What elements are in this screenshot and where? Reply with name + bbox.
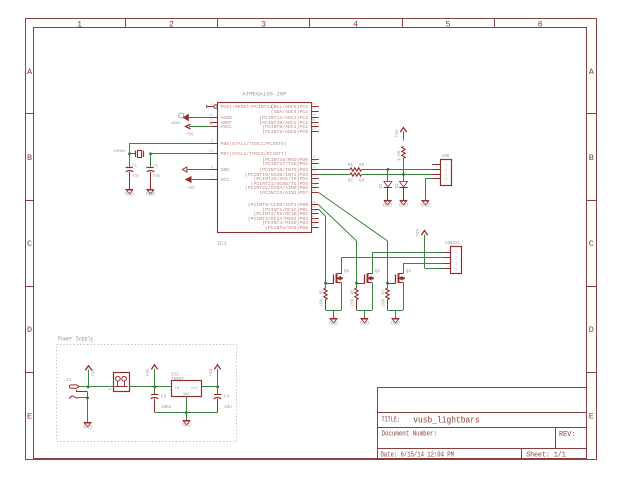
svg-text:1.5K: 1.5K [397, 150, 402, 161]
svg-text:VCC: VCC [221, 177, 230, 183]
svg-text:PC6(/RESET/PCINT14): PC6(/RESET/PCINT14) [221, 104, 276, 110]
IC1 pin 10 PB7(XTAL2/TOSC2/PCINT7) [210, 153, 218, 155]
svg-text:22p: 22p [132, 175, 140, 179]
svg-text:1: 1 [455, 252, 457, 256]
wire crystal left [129, 153, 136, 155]
frame row ticks left [25, 113, 34, 115]
svg-text:27: 27 [311, 108, 315, 112]
svg-text:(SDA/ADC4)PC4: (SDA/ADC4)PC4 [271, 109, 309, 115]
ground under Q1 [330, 318, 338, 320]
IC1 pin 24 (PCINT9/ADC1)PC1 [311, 126, 319, 128]
svg-text:6: 6 [313, 175, 315, 179]
svg-text:28: 28 [311, 103, 315, 107]
svg-text:A: A [27, 67, 33, 77]
svg-text:D1: D1 [379, 183, 384, 189]
CON pin 4 stub [443, 268, 450, 270]
IC1 pin 14 (PCINT0/CLKO/ICP1)PB0 [311, 204, 319, 206]
svg-text:R1: R1 [348, 163, 354, 168]
ground under C2 [146, 189, 154, 191]
wire PB7 to crystal [150, 153, 210, 155]
svg-text:E: E [27, 411, 32, 421]
svg-text:10k: 10k [350, 298, 355, 306]
capacitor C4 [217, 387, 219, 395]
resistor R1 [350, 168, 362, 171]
svg-text:Q3: Q3 [406, 269, 412, 274]
IC1 pin 15 (PCINT1/OC1A)PB1 [311, 209, 319, 211]
svg-text:J1: J1 [66, 377, 72, 383]
svg-text:+5V: +5V [208, 368, 214, 376]
svg-text:C: C [27, 239, 32, 249]
svg-text:10u: 10u [224, 405, 232, 410]
title block box [378, 388, 587, 459]
svg-text:4: 4 [353, 19, 358, 29]
svg-text:A: A [589, 67, 595, 77]
svg-text:14: 14 [311, 201, 315, 205]
transistor Q3 [395, 275, 397, 284]
svg-text:R6: R6 [350, 289, 355, 295]
svg-text:C2: C2 [153, 164, 158, 168]
resistor R7 10k [387, 283, 389, 288]
wire rail to gnd [186, 412, 188, 420]
ground under D2 [400, 200, 408, 202]
IC1 pin 16 (PCINT2/SS/OC1B)PB2 [311, 213, 319, 215]
pin 1 reset bubble [214, 105, 218, 109]
jack sleeve contact [69, 396, 78, 399]
svg-text:B: B [27, 153, 32, 163]
wire fuse to regulator [129, 386, 171, 388]
wire D+ IC to R1 [319, 169, 350, 171]
+9V supply after fuse [151, 365, 157, 370]
wire Q3 drain to CON pin3 [403, 263, 443, 265]
IC1 pin 2 (PCINT16/RXD)PD0 [311, 159, 319, 161]
svg-text:1: 1 [445, 164, 447, 168]
IC1 pin 5 (PCINT19/OC2B/INT1)PD3 [311, 174, 319, 176]
IC1 pin 25 (PCINT10/ADC2)PC2 [311, 122, 319, 124]
svg-text:D2: D2 [395, 183, 400, 189]
ground under D1 [384, 200, 392, 202]
svg-text:24: 24 [311, 123, 315, 127]
svg-text:+5V: +5V [187, 187, 195, 191]
svg-text:23: 23 [311, 128, 315, 132]
voltage regulator IC2 7805T [172, 381, 202, 397]
svg-text:IN: IN [175, 387, 180, 391]
svg-text:ATMEGA168-20P: ATMEGA168-20P [242, 91, 287, 98]
+5V supply at VCC [186, 177, 191, 182]
frame column ticks top [125, 19, 127, 28]
wire +5V to R4 [403, 132, 405, 141]
crystal Q1 [135, 151, 137, 157]
zener diode D2 [403, 174, 405, 181]
IC1 pin 21 AREF [210, 122, 218, 124]
+5V supply at AVCC [186, 124, 191, 129]
wire Q2 source to gnd [372, 283, 374, 310]
IC1 pin 8 GND [210, 169, 218, 171]
svg-text:GND: GND [391, 321, 400, 327]
title block sheet divider [521, 448, 523, 459]
svg-text:Sheet: 1/1: Sheet: 1/1 [526, 451, 566, 459]
svg-text:1: 1 [211, 103, 213, 107]
svg-text:12: 12 [311, 184, 315, 188]
junction +9V tap [87, 386, 90, 389]
ground under Q3 [392, 318, 400, 320]
wire Q1 drain to CON pin2 [341, 257, 443, 259]
svg-text:Q1: Q1 [344, 269, 350, 274]
svg-text:16: 16 [311, 210, 315, 214]
svg-text:(PCINT5/SCK)PB5: (PCINT5/SCK)PB5 [265, 225, 308, 231]
wire PB1 diagonal to Q1 gate [319, 209, 326, 216]
svg-text:PB7(XTAL2/TOSC2/PCINT7): PB7(XTAL2/TOSC2/PCINT7) [221, 151, 287, 157]
svg-text:5: 5 [445, 19, 450, 29]
IC1 pin 17 (PCINT3/OC2A/MOSI)PB3 [311, 218, 319, 220]
junction Q2 gate [355, 282, 358, 285]
svg-text:R7: R7 [381, 289, 386, 295]
svg-text:OUT: OUT [191, 387, 199, 391]
svg-text:GND: GND [183, 393, 191, 397]
IC1 pin 9 PB6(XTAL1/TOSC1/PCINT6) [210, 143, 218, 145]
wire Q1 source to gnd [341, 283, 343, 310]
CON pin 3 stub [443, 263, 450, 265]
svg-text:R2: R2 [348, 178, 354, 183]
+5V supply output [214, 365, 220, 370]
svg-text:R5: R5 [320, 289, 325, 295]
junction jack sleeve [86, 397, 89, 400]
zener diode D1 [387, 169, 389, 181]
IC1 pin 13 (PCINT23/AIN1)PD7 [311, 192, 319, 194]
IC1 pin 3 (PCINT17/TXD)PD1 [311, 163, 319, 165]
svg-text:C1: C1 [132, 164, 137, 168]
svg-text:TITLE:: TITLE: [382, 416, 401, 424]
IC1 pin 20 AVCC [210, 126, 218, 128]
wire regulator out [202, 386, 218, 388]
wire VCC to IC [191, 179, 210, 181]
svg-text:GND: GND [399, 203, 408, 209]
wire Q2 drain to CON pin1 [372, 252, 443, 254]
svg-text:19: 19 [311, 224, 315, 228]
junction D- [402, 173, 405, 176]
IC1 ATMEGA168 body [218, 103, 312, 233]
junction Q3 gate [386, 282, 389, 285]
fuse F1 [114, 373, 130, 392]
svg-text:GND: GND [182, 423, 191, 429]
svg-text:68: 68 [359, 178, 365, 183]
USB pin 1 stub [432, 164, 440, 166]
svg-text:(PCINT23/AIN1)PD7: (PCINT23/AIN1)PD7 [259, 190, 308, 196]
svg-text:Date: 6/15/14 12:04 PM: Date: 6/15/14 12:04 PM [381, 452, 455, 460]
svg-text:D: D [27, 325, 32, 335]
+5V supply above R4 [400, 128, 406, 133]
capacitor C1 [129, 154, 131, 168]
resistor R5 10k [325, 283, 327, 288]
frame row ticks right [586, 113, 596, 115]
svg-text:USB: USB [442, 155, 450, 159]
AGND supply symbol [179, 113, 184, 118]
ground under Q2 [361, 318, 369, 320]
ground under jack [84, 422, 92, 424]
resistor R6 10k [356, 283, 358, 288]
wire R1 to USB [362, 169, 432, 171]
capacitor C2 [150, 154, 152, 168]
svg-text:GND: GND [146, 192, 155, 198]
svg-text:AVCC: AVCC [221, 124, 233, 130]
wire +5V to CON pin4 [424, 235, 426, 269]
svg-text:18: 18 [311, 219, 315, 223]
junction Q1 gate [324, 282, 327, 285]
svg-text:+5V: +5V [186, 133, 194, 137]
wire AVCC to IC [189, 126, 210, 128]
USB pin 4 stub [432, 178, 440, 180]
USB pin 3 stub [432, 174, 440, 176]
svg-text:C: C [589, 239, 594, 249]
svg-text:D: D [589, 325, 594, 335]
svg-text:9: 9 [211, 140, 213, 144]
svg-text:16MHz: 16MHz [113, 150, 126, 154]
svg-text:GND: GND [360, 321, 369, 327]
svg-text:AGND: AGND [171, 122, 180, 126]
svg-text:C3: C3 [161, 395, 167, 400]
svg-text:+5V: +5V [415, 229, 421, 237]
transistor Q2 [364, 275, 366, 284]
IC1 pin 28 (SCL/ADC5)PC5 [311, 106, 319, 108]
junction D+ [387, 168, 390, 171]
USB pin 2 stub [432, 169, 440, 171]
svg-text:GND: GND [383, 203, 392, 209]
junction crystal right [149, 152, 152, 155]
connector USB X1 [441, 160, 452, 186]
svg-text:3: 3 [313, 160, 315, 164]
resistor R2 [350, 173, 362, 176]
svg-text:3: 3 [455, 263, 457, 267]
CON pin 2 stub [443, 257, 450, 259]
ground under C1 [125, 189, 133, 191]
svg-text:4: 4 [445, 178, 447, 182]
IC1 pin 19 (PCINT5/SCK)PB5 [311, 227, 319, 229]
svg-text:E: E [589, 411, 594, 421]
svg-text:GND: GND [329, 321, 338, 327]
wire PD7 diagonal to Q3 gate [319, 193, 388, 241]
svg-text:4: 4 [313, 166, 315, 170]
wire AGND to IC [188, 117, 210, 119]
wire D- IC to R2 [319, 174, 350, 176]
svg-text:IC1: IC1 [217, 240, 228, 247]
junction crystal left [128, 152, 131, 155]
svg-text:GND: GND [125, 192, 134, 198]
svg-text:Power Supply: Power Supply [58, 336, 94, 343]
svg-text:7805T: 7805T [171, 377, 184, 382]
wire R4 to D- [403, 158, 405, 174]
svg-text:3: 3 [261, 19, 266, 29]
wire Q3 source to gnd [403, 283, 405, 310]
svg-text:GND: GND [421, 203, 430, 209]
svg-text:(PCINT8/ADC0)PC0: (PCINT8/ADC0)PC0 [262, 129, 308, 135]
IC1 pin 11 (PCINT21/OC0B/T1)PD5 [311, 183, 319, 185]
IC1 pin 27 (SDA/ADC4)PC4 [311, 111, 319, 113]
svg-text:13: 13 [311, 189, 315, 193]
IC1 pin 23 (PCINT8/ADC0)PC0 [311, 131, 319, 133]
+5V supply at CON [421, 231, 427, 236]
wire jack sleeve to gnd [78, 397, 87, 399]
wire USB gnd pin [425, 178, 432, 180]
wire R2 to USB [362, 174, 432, 176]
IC1 pin 4 (PCINT18/INT0)PD2 [311, 169, 319, 171]
svg-text:1: 1 [77, 19, 82, 29]
svg-text:C4: C4 [224, 395, 230, 400]
junction ground rail [185, 411, 188, 414]
wire jack to fuse [79, 386, 113, 388]
IC1 pin 12 (PCINT22/OC0A/AIN0)PD6 [311, 187, 319, 189]
svg-text:+9V: +9V [145, 368, 151, 376]
resistor R4 1.5K [402, 146, 405, 158]
svg-text:8: 8 [211, 166, 213, 170]
IC1 pin 18 (PCINT4/MISO)PB4 [311, 222, 319, 224]
svg-text:Q2: Q2 [375, 269, 381, 274]
wire regulator gnd [186, 396, 188, 412]
svg-text:100u: 100u [161, 405, 172, 410]
svg-text:GND: GND [83, 425, 92, 431]
svg-text:2: 2 [445, 169, 447, 173]
svg-text:2: 2 [169, 19, 174, 29]
wire PB0 diagonal to Q2 gate [319, 205, 357, 241]
IC1 pin 7 VCC [210, 179, 218, 181]
svg-text:6: 6 [538, 19, 543, 29]
IC1 pin 26 (PCINT11/ADC3)PC3 [311, 117, 319, 119]
svg-text:F1: F1 [108, 385, 113, 391]
svg-text:+5V: +5V [394, 129, 400, 137]
svg-text:GND: GND [221, 167, 230, 173]
wire ground rail [155, 412, 218, 414]
ground USB [421, 200, 429, 202]
svg-text:68: 68 [359, 163, 365, 168]
IC1 pin 6 (PCINT20/XCK/T0)PD4 [311, 178, 319, 180]
wire GND pin to IC [187, 169, 210, 171]
title block REV divider [555, 428, 557, 448]
svg-text:CON4X1: CON4X1 [445, 242, 461, 246]
power supply dashed box [57, 345, 237, 442]
IC1 pin 22 AGND [210, 117, 218, 119]
svg-text:10k: 10k [381, 298, 386, 306]
svg-text:(PCINT17/TXD)PD1: (PCINT17/TXD)PD1 [262, 161, 308, 167]
svg-text:26: 26 [311, 114, 315, 118]
svg-text:+9V: +9V [90, 368, 96, 376]
jack switch contact [76, 390, 78, 392]
svg-text:vusb_lightbars: vusb_lightbars [413, 414, 480, 425]
wire PB6 to crystal [129, 143, 210, 145]
svg-text:7: 7 [211, 176, 213, 180]
capacitor C3 [154, 387, 156, 395]
svg-text:4: 4 [455, 268, 457, 272]
transistor Q1 [333, 275, 335, 284]
svg-text:REV:: REV: [559, 431, 576, 439]
svg-text:PB6(XTAL1/TOSC1/PCINT6): PB6(XTAL1/TOSC1/PCINT6) [221, 141, 287, 147]
svg-text:B: B [589, 153, 594, 163]
svg-text:22p: 22p [153, 175, 161, 179]
GND supply at GND pin [182, 167, 187, 172]
svg-text:Document Number:: Document Number: [382, 431, 438, 439]
connector CON1 [451, 247, 462, 274]
ground power supply [183, 420, 191, 422]
svg-text:10k: 10k [320, 298, 325, 306]
CON pin 1 stub [443, 252, 450, 254]
+9V supply at jack [85, 366, 91, 371]
junction C4 [216, 386, 219, 389]
junction C3 [153, 386, 156, 389]
svg-text:2: 2 [455, 257, 457, 261]
